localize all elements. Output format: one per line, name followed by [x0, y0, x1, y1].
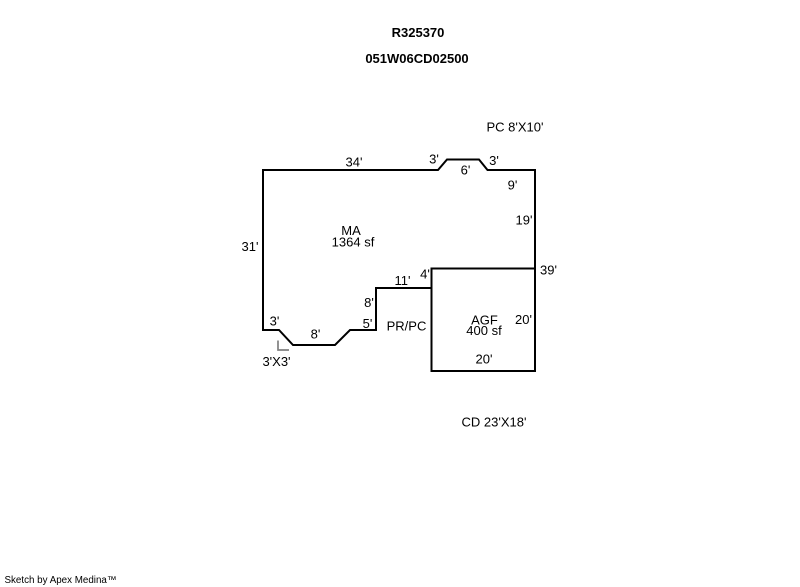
svg-text:R325370: R325370: [392, 25, 445, 40]
svg-text:31': 31': [242, 239, 259, 254]
svg-text:1364 sf: 1364 sf: [332, 235, 375, 250]
svg-text:11': 11': [395, 273, 411, 288]
svg-text:PR/PC: PR/PC: [387, 319, 427, 334]
svg-text:39': 39': [540, 263, 557, 278]
svg-text:6': 6': [461, 163, 471, 178]
svg-text:20': 20': [476, 352, 493, 367]
svg-text:5': 5': [363, 316, 373, 331]
svg-text:20': 20': [515, 312, 532, 327]
svg-text:CD 23'X18': CD 23'X18': [462, 415, 527, 430]
svg-text:8': 8': [364, 295, 374, 310]
svg-text:9': 9': [508, 178, 518, 193]
svg-text:Sketch by Apex Medina™: Sketch by Apex Medina™: [5, 575, 117, 586]
svg-text:PC 8'X10': PC 8'X10': [487, 120, 544, 135]
svg-text:8': 8': [311, 327, 321, 342]
svg-text:051W06CD02500: 051W06CD02500: [365, 51, 468, 66]
svg-text:34': 34': [346, 155, 363, 170]
svg-text:19': 19': [516, 213, 533, 228]
svg-text:4': 4': [420, 267, 430, 282]
svg-text:3'X3': 3'X3': [262, 354, 290, 369]
svg-text:3': 3': [489, 153, 499, 168]
svg-text:3': 3': [429, 152, 439, 167]
svg-text:400 sf: 400 sf: [466, 323, 502, 338]
svg-text:3': 3': [270, 314, 280, 329]
